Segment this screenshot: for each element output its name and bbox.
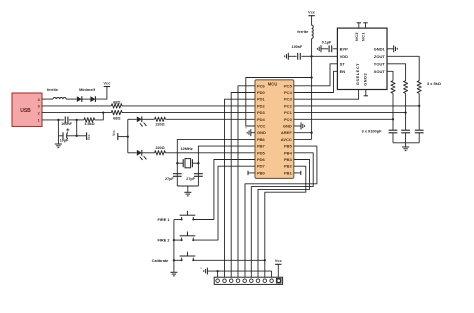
wire crystal ground rail [177, 186, 198, 192]
accel pin label NC2 (rotated) [354, 32, 359, 41]
svg-text:ferrite: ferrite [47, 87, 59, 92]
label 3 x 9100pF [362, 128, 383, 133]
svg-text:3 x 5kΩ: 3 x 5kΩ [427, 81, 441, 86]
wire button S2 right [193, 239, 218, 241]
svg-text:Vcc: Vcc [275, 258, 283, 263]
wire MCU PD6 to FIRE1 button [214, 160, 255, 220]
MCU left pin label PB6 [257, 137, 266, 142]
svg-text:0.1µF: 0.1µF [322, 41, 332, 45]
svg-text:GND1: GND1 [374, 46, 386, 51]
wire R1 to MCU PD2 [122, 105, 255, 107]
svg-text:PB1: PB1 [284, 170, 293, 175]
Vcc terminal for LEDs (rotated) [112, 130, 118, 140]
wire ferrite to D1 [66, 98, 77, 100]
svg-text:Vcc: Vcc [308, 10, 316, 15]
connector SV1 10-pin header [214, 277, 282, 284]
ground at MCU GND left [245, 127, 255, 137]
MCU left pin label PD3 [257, 110, 266, 115]
label FIRE 1 [157, 217, 170, 222]
MCU right pin label PB2 [284, 164, 293, 169]
wire to LED2 [128, 152, 137, 154]
wire USB pin3 (D+) to R1 [42, 105, 111, 107]
wire USB pin2 (D-) to R2 [42, 112, 111, 114]
wire MCU PB4 wrap-around to connector pin 6 [251, 153, 313, 279]
ground for C5 (rotated) [285, 53, 289, 60]
USB pin 3 number [38, 105, 40, 109]
MCU left pin label PD2 [257, 103, 266, 108]
MCU left pin label PD7 [257, 164, 266, 169]
capacitor C4 27pF [186, 174, 203, 181]
crystal Q1 12MHz [177, 146, 198, 168]
svg-text:220Ω: 220Ω [155, 146, 164, 150]
svg-text:ferrite: ferrite [297, 29, 309, 34]
wire button S1 right [193, 219, 214, 221]
wire USB pin1 to cap node [42, 119, 64, 121]
MCU left pin label GND [257, 130, 266, 135]
accel pin label GND2 (rotated) [362, 73, 367, 86]
wire LED1 to R4 [142, 118, 155, 120]
wire Vcc to connector pin 10 [277, 264, 279, 279]
svg-text:PC4: PC4 [284, 90, 293, 95]
svg-text:PC5: PC5 [284, 83, 293, 88]
svg-text:100nF: 100nF [61, 122, 72, 126]
svg-text:NC1: NC1 [361, 32, 366, 41]
wire to LED1 [128, 118, 137, 120]
wire ferrite down Vcc vertical [311, 39, 313, 140]
label 3 x 5k [427, 81, 441, 86]
wire MCU AREF to Vcc vertical [294, 132, 312, 134]
svg-text:PB3: PB3 [284, 157, 293, 162]
resistor R3 1.5kR [84, 118, 95, 127]
MCU U1 body [255, 80, 294, 179]
svg-text:ST: ST [340, 61, 346, 66]
svg-text:PB4: PB4 [284, 150, 293, 155]
svg-text:GND2: GND2 [362, 73, 367, 86]
junction on D- line [102, 111, 104, 113]
MCU right pin label AREF [281, 130, 292, 135]
wire button common vertical [173, 220, 175, 273]
LED D4 [137, 150, 147, 160]
resistor R2 68R [111, 110, 122, 120]
MCU right pin label PB4 [284, 150, 293, 155]
button S1 FIRE1 [180, 211, 196, 221]
capacitor C3 27pF [165, 174, 182, 181]
junction AREF [310, 132, 312, 134]
junction PC0/XOUT [392, 118, 394, 120]
wire R2 to MCU PD3 [122, 112, 255, 114]
ground at MCU GND right [294, 123, 305, 130]
svg-text:PB7: PB7 [257, 144, 266, 149]
svg-text:PC1: PC1 [284, 110, 293, 115]
label FIRE 2 [157, 238, 170, 243]
junction Vcc rail top [310, 76, 312, 78]
svg-text:PD6: PD6 [257, 157, 266, 162]
accel pin label NC1 (rotated) [361, 32, 366, 41]
svg-text:VCC: VCC [257, 124, 266, 129]
ferrite bead L2 [47, 87, 66, 99]
wire MCU PB2 wrap-around to connector pin 8 [265, 166, 306, 279]
wire button S3 right to PB2 net [193, 259, 264, 261]
MCU right pin label PC0 [284, 117, 293, 122]
svg-text:100nF: 100nF [292, 45, 303, 49]
junction connector pin1 gnd [216, 270, 218, 272]
MCU left pin label PD1 [257, 97, 266, 102]
capacitor C2 10uF electrolytic [58, 128, 76, 142]
accelerometer U2 body [337, 28, 387, 89]
junction node X bottom [76, 135, 78, 137]
svg-text:FIRE 2: FIRE 2 [157, 238, 170, 243]
wire accel GSELECT to MCU PC3 [294, 90, 359, 100]
capacitor C5 100nF [288, 45, 311, 60]
wire gnd to connector pin1 [217, 271, 219, 279]
svg-text:Vcc: Vcc [103, 80, 111, 85]
button S3 Calibrate [180, 252, 196, 262]
accel pin label EN [340, 69, 346, 74]
wire MCU PB6 to crystal left [177, 139, 255, 186]
wire MCU PC0 to XOUT node [294, 118, 393, 120]
svg-text:10µF: 10µF [60, 139, 69, 143]
resistor R4 220R [155, 117, 166, 127]
wire MCU PD1 down to connector pin 2 [225, 99, 256, 279]
wire D1 to D2 [82, 98, 91, 100]
svg-text:YOUT: YOUT [374, 61, 386, 66]
wire accel EN to MCU PC4 [294, 71, 338, 92]
capacitor C7 9100pF [389, 130, 398, 133]
junction node X top [76, 119, 78, 121]
junction VDD/100nF [310, 55, 312, 57]
accel GND2 stub no-connect [364, 90, 368, 96]
ground terminal (connector, rotated) [201, 267, 208, 275]
MCU left pin label PB0 [257, 170, 266, 175]
svg-text:AREF: AREF [281, 130, 292, 135]
svg-text:EN: EN [340, 69, 346, 74]
label Calibrate [152, 258, 169, 263]
wire LED feed [118, 136, 128, 138]
svg-text:GND: GND [257, 130, 266, 135]
MCU left pin label PD0 [257, 90, 266, 95]
capacitor C9 9100pF [415, 130, 424, 133]
accel pin label ZOUT [374, 54, 385, 59]
accel NC1 stub [363, 23, 367, 28]
svg-text:XOUT: XOUT [374, 69, 386, 74]
Vcc supply (connector) [275, 258, 283, 264]
USB pin 2 number [38, 111, 40, 115]
junction LED feed [127, 135, 129, 137]
Vcc supply symbol (USB) [103, 80, 111, 86]
wire USB pin4 to ferrite [42, 98, 53, 100]
ground (RC filter) [402, 147, 409, 151]
MCU right pin label PC4 [284, 90, 293, 95]
svg-text:NC2: NC2 [354, 32, 359, 41]
accel NC2 stub [357, 23, 361, 28]
svg-text:2: 2 [38, 111, 40, 115]
svg-text:Minimelf: Minimelf [79, 87, 95, 92]
ground (buttons) [170, 272, 177, 276]
svg-text:ZOUT: ZOUT [374, 54, 385, 59]
svg-text:1: 1 [38, 119, 40, 123]
junction on pin1 wire [57, 119, 59, 121]
USB connector J1 [12, 93, 42, 127]
resistor R6 5k (XOUT) [391, 81, 395, 94]
MCU left pin label VCC [257, 124, 266, 129]
ground at accel GND1 (rotated) [387, 45, 397, 52]
svg-text:GND: GND [283, 124, 292, 129]
ground (USB) [55, 144, 62, 148]
svg-text:VDD: VDD [340, 54, 349, 59]
accel pin label BYP [340, 46, 349, 51]
wire pin1 node to ground [57, 136, 59, 144]
wire MCU PC1 to YOUT node [294, 112, 406, 114]
wire node X down [76, 120, 78, 136]
wire caps to ground rail [393, 133, 419, 147]
resistor R8 5k (ZOUT) [417, 81, 421, 94]
wire VDD to accel [312, 55, 338, 57]
wire R5 to MCU PD5 [165, 152, 255, 154]
wire accel XOUT down [387, 71, 393, 80]
svg-text:12MHz: 12MHz [180, 146, 192, 151]
svg-text:GSELECT: GSELECT [355, 63, 360, 85]
wire accel ZOUT down [387, 56, 419, 80]
MCU right pin label PB3 [284, 157, 293, 162]
svg-text:220Ω: 220Ω [155, 123, 164, 127]
svg-text:PD0: PD0 [257, 90, 266, 95]
junction crystal right [197, 162, 199, 164]
svg-text:PD4: PD4 [257, 117, 266, 122]
button S2 FIRE2 [180, 232, 196, 242]
MCU PB0 no-connect stub [248, 171, 255, 175]
svg-text:1.5kΩ: 1.5kΩ [84, 122, 94, 126]
MCU right pin label PC5 [284, 83, 293, 88]
USB pin 1 number [38, 119, 40, 123]
svg-text:3 x 9100pF: 3 x 9100pF [362, 128, 383, 133]
wire node X to Vcc tap [77, 135, 87, 137]
svg-text:MCU: MCU [268, 82, 278, 87]
accel pin label GSELECT (rotated) [355, 63, 360, 85]
svg-text:PB0: PB0 [257, 170, 266, 175]
accel pin label ST [340, 61, 346, 66]
svg-text:PB6: PB6 [257, 137, 266, 142]
junction PC1/YOUT [404, 111, 406, 113]
accel pin label GND1 [374, 46, 386, 51]
svg-text:PD2: PD2 [257, 103, 266, 108]
diode D2 Minimelf [90, 96, 95, 102]
MCU left pin label PD6 [257, 157, 266, 162]
svg-text:AVCC: AVCC [281, 137, 292, 142]
wire R7 down to cap [405, 93, 407, 130]
wire button S2 left [174, 239, 182, 241]
wire MCU PD7 to FIRE2 button [218, 166, 255, 240]
wire MCU AVCC corner [294, 138, 312, 140]
MCU right pin label AVCC [281, 137, 292, 142]
svg-text:PD1: PD1 [257, 97, 266, 102]
resistor R1 68R [111, 99, 122, 108]
ferrite bead L1 (vertical) [297, 25, 313, 38]
wire MCU PB5 wrap-around to connector pin 5 [245, 146, 317, 279]
Vcc supply (accelerometer) [308, 10, 316, 16]
junction PC2/ZOUT [418, 105, 420, 107]
wire C1 to junction [69, 119, 84, 121]
svg-text:PB5: PB5 [284, 144, 293, 149]
ground for C6 (rotated) [317, 45, 321, 52]
svg-text:27pF: 27pF [165, 177, 174, 181]
svg-text:PD5: PD5 [257, 150, 266, 155]
junction button common Calibrate [173, 259, 175, 261]
resistor R7 5k (YOUT) [404, 81, 408, 94]
MCU right pin label GND [283, 124, 292, 129]
svg-text:68Ω: 68Ω [113, 116, 120, 121]
junction Calibrate to PB2 wire [264, 259, 266, 261]
MCU left pin label PD4 [257, 117, 266, 122]
accel pin label VDD [340, 54, 349, 59]
wire MCU PC2 to ZOUT node [294, 105, 419, 107]
wire MCU VCC up and over to Vcc rail [246, 78, 312, 127]
MCU left pin label PC6 [257, 83, 266, 88]
wire LED2 to R5 [142, 152, 155, 154]
ground (crystal) [184, 192, 191, 196]
wire button S1 left [174, 219, 182, 221]
svg-text:PB2: PB2 [284, 164, 293, 169]
MCU left pin label PD5 [257, 150, 266, 155]
wire pin1 node down left [57, 120, 59, 136]
accel pin label YOUT [374, 61, 386, 66]
svg-text:Calibrate: Calibrate [152, 258, 169, 263]
svg-text:BYP: BYP [340, 46, 349, 51]
svg-text:Vcc: Vcc [87, 134, 91, 140]
MCU right pin label PB5 [284, 144, 293, 149]
wire D2 to Vcc corner [95, 87, 107, 100]
svg-text:Vcc: Vcc [112, 130, 116, 136]
MCU PB1 no-connect stub [294, 171, 301, 175]
wire MCU PD0 down to connector pin 3 [231, 93, 255, 280]
svg-text:PD3: PD3 [257, 110, 266, 115]
wire R4 to MCU PD4 [165, 118, 255, 120]
wire MCU PB3 wrap-around to connector pin 7 [258, 160, 310, 280]
svg-text:PC2: PC2 [284, 103, 293, 108]
capacitor C1 100nF (series) [61, 117, 72, 127]
wire MCU PC6 down to connector pin 4 [238, 86, 255, 279]
MCU right pin label PC3 [284, 97, 293, 102]
diode D1 Minimelf [77, 87, 96, 102]
wire MCU PB7 to crystal right [198, 146, 255, 186]
USB pin 4 number [38, 98, 41, 102]
Vcc tap terminal (rotated) [87, 132, 91, 140]
wire button S3 left [174, 259, 182, 261]
MCU left pin label PB7 [257, 144, 266, 149]
svg-text:3: 3 [38, 105, 40, 109]
accel pin label XOUT [374, 69, 386, 74]
junction button common FIRE2 [173, 239, 175, 241]
wire R6 down to cap [392, 93, 394, 130]
svg-text:PC3: PC3 [284, 97, 293, 102]
capacitor C8 9100pF [401, 130, 410, 133]
wire R8 down to cap [418, 93, 420, 130]
svg-text:68Ω: 68Ω [113, 99, 120, 104]
wire LED branch vertical [127, 119, 129, 153]
MCU right pin label PC1 [284, 110, 293, 115]
MCU right pin label PC2 [284, 103, 293, 108]
resistor R5 220R [155, 146, 166, 155]
svg-text:PC6: PC6 [257, 83, 266, 88]
capacitor C6 0.1uF [321, 41, 337, 53]
svg-text:FIRE 1: FIRE 1 [157, 217, 170, 222]
LED D3 [137, 116, 147, 126]
wire Vcc to ferrite [311, 16, 313, 26]
wire R3 up to D- line [95, 113, 104, 120]
svg-text:PD7: PD7 [257, 164, 266, 169]
wire ground rail to connector [207, 270, 271, 272]
svg-text:USB: USB [20, 108, 31, 114]
MCU right pin label PB1 [284, 170, 293, 175]
wire accel YOUT down [387, 64, 406, 81]
svg-text:27pF: 27pF [186, 177, 195, 181]
svg-text:PC0: PC0 [284, 117, 293, 122]
wire accel ST to MCU PC5 [294, 64, 338, 86]
junction crystal left [176, 162, 178, 164]
wire gnd rail down to connector pin 9 [271, 271, 273, 279]
